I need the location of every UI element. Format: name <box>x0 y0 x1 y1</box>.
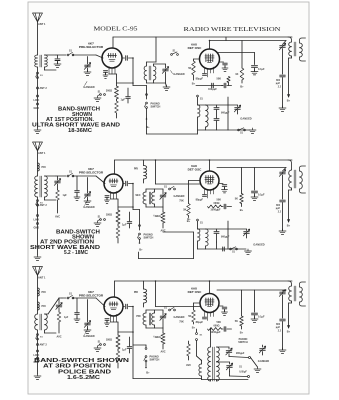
ground varcap s3 <box>84 328 91 333</box>
svg-text:1000μμF: 1000μμF <box>210 331 221 334</box>
ground padder s2 <box>279 229 286 234</box>
oscillator coil core s3 <box>213 347 215 381</box>
wire T2 sec top s1 <box>153 64 155 66</box>
wire V1 plate out s2 <box>123 183 125 185</box>
wire osc bus s2 <box>222 206 224 208</box>
variable capacitor osc1 s3 <box>228 347 230 349</box>
wire osc bottom bus s2 <box>197 241 199 249</box>
ground cath s1 <box>94 96 101 101</box>
resistor below cathode s3 <box>116 351 120 363</box>
wire V1 plate to rail s3 <box>114 281 116 297</box>
ground varcap s2 <box>84 199 91 204</box>
svg-text:1.6-5.2MC: 1.6-5.2MC <box>67 375 100 381</box>
resistor below cathode s1 <box>115 101 119 113</box>
capacitor switch osc s2 <box>223 247 225 251</box>
variable capacitor osc2 s3 <box>229 362 231 364</box>
resistor below cathode s2 <box>116 226 120 238</box>
wire antenna lead s3 <box>37 276 39 315</box>
svg-text:1000μμF: 1000μμF <box>210 209 221 212</box>
wire osc mid s3 <box>217 361 230 363</box>
tube V2 6A8 s1 <box>200 49 220 69</box>
capacitor coupling s1 <box>126 56 128 61</box>
terminal osc2 s3 <box>248 376 250 378</box>
svg-text:PRI: PRI <box>42 305 46 308</box>
variable capacitor padder s3 <box>283 290 287 291</box>
wire below cath res s2 <box>117 224 119 226</box>
wire V1 plate out s3 <box>123 306 125 308</box>
capacitor coupling s3 <box>126 304 128 309</box>
ground osc s2 <box>245 249 252 254</box>
capacitor bypass 77 s3 <box>76 298 78 312</box>
wire SEC top s2 <box>145 189 147 192</box>
resistor 5K s3 <box>194 302 201 304</box>
rail3 s3 <box>217 289 286 291</box>
ground cath s3 <box>94 346 101 351</box>
capacitor grid right s1 <box>220 61 224 63</box>
wire varcap drop s1 <box>87 57 89 65</box>
capacitor 100uuF s1 <box>212 83 214 88</box>
IF transformer core s3 <box>294 286 296 301</box>
wire V2 grid feed s3 <box>155 281 157 307</box>
capacitor bypass 77 s2 <box>76 176 78 190</box>
switch osc contacts s3 <box>196 329 198 332</box>
transformer T1 secondary s3 <box>45 314 48 330</box>
wire cath bus right s2 <box>118 206 133 208</box>
wire T1 sec bottom s3 <box>44 330 46 333</box>
resistor AVC s3 <box>57 312 61 322</box>
svg-text:B+: B+ <box>287 99 291 103</box>
transformer T2b core s2 <box>149 192 150 204</box>
transformer T1 core s2 <box>40 176 42 197</box>
wire ant ground lead s3 <box>37 330 39 374</box>
ground bypass 77 s2 <box>74 195 80 200</box>
svg-text:AVC: AVC <box>160 351 165 354</box>
wire drop 0.1uF s3 <box>254 290 256 312</box>
wire T1 sec top s2 <box>45 175 57 177</box>
svg-text:300Ω: 300Ω <box>106 90 112 93</box>
svg-text:LINK: LINK <box>34 99 40 102</box>
svg-text:B+: B+ <box>139 248 143 252</box>
wire osc coilC leads s3 <box>201 360 203 364</box>
wire osc top s3 <box>217 346 230 348</box>
svg-text:B+: B+ <box>240 85 244 89</box>
svg-text:1μF: 1μF <box>122 224 127 227</box>
svg-text:DET OSC: DET OSC <box>188 168 203 172</box>
resistor cathode s3 <box>117 322 119 335</box>
svg-text:MODEL C-95: MODEL C-95 <box>94 25 138 32</box>
ground 0.1uF s3 <box>251 317 258 322</box>
resistor 600ohm s2 <box>208 205 222 208</box>
capacitor grid right s2 <box>219 183 223 185</box>
wire T2b tops s2 <box>154 189 156 192</box>
wire below 5K s2 <box>188 216 190 218</box>
transformer T2 core s1 <box>149 66 151 80</box>
terminal LINK s1 <box>37 95 39 97</box>
coil PRI s3 <box>144 289 147 303</box>
wire drop 0.1uF s1 <box>254 53 256 65</box>
wire T1 sec bottom s1 <box>44 67 46 70</box>
ground padder s1 <box>279 106 286 111</box>
svg-text:RADIO WIRE TELEVISION: RADIO WIRE TELEVISION <box>184 26 281 33</box>
svg-text:DET OSC: DET OSC <box>188 46 203 50</box>
capacitor 80uuF s1 <box>203 74 207 76</box>
capacitor osc pad s1 <box>216 105 218 107</box>
wire osc drop s3 <box>210 329 212 347</box>
switch S1d s2 <box>230 248 232 250</box>
svg-text:ANT 1: ANT 1 <box>38 22 46 26</box>
oscillator coil A s1 <box>198 105 200 117</box>
ground antenna s3 <box>34 374 41 379</box>
wire cath bus s1 <box>109 73 117 75</box>
svg-text:0.05μF: 0.05μF <box>239 371 247 374</box>
terminal GND s2 <box>37 223 39 225</box>
tube V1 6K7 s2 <box>104 174 123 193</box>
transformer T1 primary s1 <box>35 55 38 67</box>
wire mid gnd s1 <box>166 83 167 87</box>
wire phono down2 s3 <box>145 362 147 367</box>
transformer T2b coil s3 <box>152 313 155 325</box>
wire below 5K right s3 <box>241 326 243 329</box>
capacitor cathode bypass s3 <box>105 319 109 321</box>
transformer T1 core s1 <box>40 55 42 67</box>
switch phono s3 <box>145 348 147 350</box>
terminal osc1 s3 <box>249 357 251 359</box>
junction rail plate s2 <box>209 159 211 161</box>
svg-text:0.1μF: 0.1μF <box>258 68 265 71</box>
oscillator coil A s3 <box>208 347 211 381</box>
wire phono bottom return s1 <box>146 118 148 134</box>
resistor 5K s1 <box>194 58 200 60</box>
svg-text:75K: 75K <box>179 200 184 203</box>
wire osc bus left s1 <box>196 85 223 87</box>
wire drop 0.1uF s2 <box>254 168 256 191</box>
variable capacitor padder s2 <box>283 168 287 172</box>
wire rail drop to PRI s3 <box>143 281 145 289</box>
coil antenna choke1 s2 <box>38 163 40 171</box>
svg-text:B+: B+ <box>287 224 291 228</box>
svg-text:5K: 5K <box>235 320 238 323</box>
svg-text:AVC: AVC <box>56 336 61 339</box>
tube V2 6A8 s3 <box>200 294 219 313</box>
svg-text:GANGED: GANGED <box>253 243 265 247</box>
variable capacitor osc s2 <box>246 229 248 231</box>
capacitor cathode bypass s2 <box>105 196 109 198</box>
IF transformer core s1 <box>294 42 296 56</box>
switch S1a s3 <box>67 297 69 299</box>
IF transformer secondary s3 <box>300 287 303 302</box>
wire varcap drop s2 <box>87 178 89 194</box>
ground padder s3 <box>279 348 286 353</box>
svg-text:18-36MC: 18-36MC <box>68 128 92 134</box>
svg-text:PRI: PRI <box>42 166 46 169</box>
wire V2 plate to rail s3 <box>209 281 211 294</box>
resistor 5K s2 <box>189 180 201 182</box>
wire padder gnd s2 <box>282 203 284 232</box>
capacitor grid right s3 <box>219 305 223 307</box>
svg-text:B+: B+ <box>240 331 244 335</box>
wire SEC top s3 <box>145 310 147 313</box>
terminal ANT2 s3 <box>37 344 39 346</box>
transformer T1 core s3 <box>40 314 42 330</box>
resistor quarter-meg s3 <box>162 328 164 333</box>
wire plate junction drop s2 <box>132 184 134 208</box>
wire cath bus right s1 <box>117 82 134 84</box>
wire antenna lead s1 <box>37 22 39 55</box>
wire below cath res s3 <box>117 349 119 351</box>
resistor AVC s2 <box>56 190 60 200</box>
svg-text:LINK: LINK <box>34 219 40 222</box>
ground osc s1 <box>249 128 256 133</box>
wire V1 plate to rail s1 <box>112 37 114 48</box>
svg-text:GANGED: GANGED <box>173 72 185 76</box>
terminal GND s1 <box>37 103 39 105</box>
wire resistor tail s2 <box>117 238 119 243</box>
variable capacitor ganged s3 <box>85 323 91 325</box>
wire osc tops s2 <box>198 228 206 230</box>
wire varcap to gnd s1 <box>87 68 89 72</box>
transformer T2b core s3 <box>149 313 150 325</box>
svg-text:50K: 50K <box>217 78 222 81</box>
wire AVC return s2 <box>163 231 194 233</box>
wire AVC down s2 <box>57 200 59 213</box>
switch S1c s3 <box>169 309 171 311</box>
ground mid s1 <box>163 85 170 90</box>
wire IF sec bot s3 <box>300 302 306 306</box>
coil antenna choke2 s3 <box>38 302 40 310</box>
wire gnd osc link s3 <box>251 358 258 368</box>
terminal LINK s2 <box>37 215 39 217</box>
wire V2 cathode leads s2 <box>205 188 214 198</box>
switch S1d s1 <box>238 129 240 131</box>
svg-text:GANGED: GANGED <box>83 205 95 209</box>
wire AVC down s3 <box>58 322 60 333</box>
capacitor 0.1uF s2 <box>252 191 258 193</box>
IF transformer primary s3 <box>289 286 292 301</box>
resistor 5K right s2 <box>241 168 243 194</box>
wire osc vc top s2 <box>228 228 247 230</box>
wire grid lead s3 <box>62 297 66 299</box>
transformer T2 primary s1 <box>144 66 146 80</box>
terminal osc S1 s2 <box>197 219 199 221</box>
svg-text:80μμF: 80μμF <box>196 78 204 81</box>
resistor osc grid s1 <box>228 83 230 86</box>
capacitor osc pad s2 <box>216 229 218 231</box>
resistor 1K s1 <box>241 41 243 69</box>
wire plate junction drop s1 <box>132 58 134 83</box>
svg-text:AVC: AVC <box>55 216 60 219</box>
wire below qmeg s3 <box>162 344 164 349</box>
svg-text:B+: B+ <box>287 330 291 334</box>
svg-text:1μF: 1μF <box>122 349 127 352</box>
oscillator coil A s2 <box>198 229 200 241</box>
capacitor 1uF s3 <box>129 337 131 346</box>
svg-text:ANT 2: ANT 2 <box>40 204 48 207</box>
wire T1 sec bottom s2 <box>44 197 46 200</box>
capacitor padder s3 <box>280 319 286 321</box>
svg-text:900μμF: 900μμF <box>236 352 245 355</box>
capacitor 80uuF s3 <box>203 317 207 319</box>
svg-text:PRI: PRI <box>136 315 140 318</box>
switch S1b contacts s2 <box>37 200 39 202</box>
switch S1b s1 <box>100 94 102 96</box>
svg-text:ANT 1: ANT 1 <box>38 151 46 155</box>
wire V2 cathode leads s3 <box>205 311 214 321</box>
wire cath bus s3 <box>111 321 119 323</box>
rail3 s1 <box>218 52 255 54</box>
wire rail drop to T2 s1 <box>155 37 157 62</box>
svg-text:PRE-SELECTOR: PRE-SELECTOR <box>79 171 104 175</box>
wire osc bottom bus s3 <box>202 379 249 381</box>
svg-text:LINK: LINK <box>34 354 40 357</box>
svg-text:1μF: 1μF <box>64 316 69 319</box>
svg-text:180Ω: 180Ω <box>106 214 112 217</box>
capacitor 0.05 s3 <box>229 372 231 377</box>
resistor AVC2 s3 <box>188 341 190 344</box>
ground varcap s1 <box>84 70 91 75</box>
capacitor 80uuF s2 <box>203 195 207 197</box>
wire antenna lead s2 <box>37 151 39 176</box>
svg-text:75K: 75K <box>179 321 184 324</box>
variable capacitor C osc s1 <box>165 64 167 68</box>
svg-text:5K: 5K <box>188 67 191 70</box>
transformer T1 secondary s1 <box>45 55 48 67</box>
svg-text:0.1μF: 0.1μF <box>258 316 265 319</box>
svg-text:B+: B+ <box>192 82 196 86</box>
resistor quarter-meg s2 <box>162 207 164 212</box>
junction dot bus s1 <box>132 82 134 84</box>
wire IF sec top s2 <box>300 166 306 171</box>
wire ant ground lead s1 <box>37 67 39 128</box>
wire osc bottom bus s1 <box>197 117 199 130</box>
variable capacitor ganged s2 <box>85 194 91 196</box>
wire V1 cathode leads s2 <box>111 192 117 200</box>
svg-text:5K: 5K <box>183 209 186 212</box>
svg-text:600Ω: 600Ω <box>214 325 220 328</box>
wire phono down s1 <box>146 108 148 118</box>
variable capacitor padder s1 <box>283 41 287 45</box>
tube V1 6K7 s3 <box>104 297 123 316</box>
capacitor 1000uuF s2 <box>224 204 226 209</box>
wire T2b bottoms s2 <box>154 204 156 207</box>
ground trimmer C1 s1 <box>54 62 61 67</box>
svg-text:900μμF: 900μμF <box>221 236 230 239</box>
wire IF sec bot s2 <box>300 189 306 193</box>
wire V2 grid feed s2 <box>155 160 157 184</box>
wire grid lead s1 <box>56 54 66 56</box>
coil SEC s2 <box>143 192 146 204</box>
oscillator coil B s1 <box>206 105 209 127</box>
wire 0.1uF gnd s2 <box>254 194 256 198</box>
wire IF prim bot s3 <box>291 301 293 303</box>
capacitor 1000uuF s3 <box>224 327 226 332</box>
transformer T2 secondary s1 <box>154 66 156 80</box>
oscillator coil B s3 <box>217 347 220 381</box>
IF transformer secondary s2 <box>300 171 303 189</box>
ground 0.1uF s1 <box>251 70 258 75</box>
ground antenna s1 <box>34 128 41 133</box>
wire below 5K s1 <box>193 75 195 80</box>
wire varcap to gnd s2 <box>87 197 89 201</box>
svg-text:80μμF: 80μμF <box>196 199 204 202</box>
wire resistor tail s3 <box>117 363 119 368</box>
svg-text:100μμF: 100μμF <box>208 88 217 91</box>
svg-text:1K: 1K <box>235 73 238 76</box>
wire 0.1uF gnd s3 <box>254 316 256 320</box>
variable capacitor mid s3 <box>162 310 164 315</box>
wire V2 plate to rail s1 <box>209 41 211 50</box>
wire padder gnd s1 <box>282 78 284 109</box>
ground 0.1uF s2 <box>251 195 258 200</box>
wire osc vc top s1 <box>228 104 238 106</box>
transformer T1 primary s3 <box>35 314 38 330</box>
junction dot bus s2 <box>132 206 134 208</box>
ground antenna s2 <box>34 255 41 260</box>
IF transformer core s2 <box>294 170 296 188</box>
resistor cathode s2 <box>117 199 119 210</box>
svg-text:PRI: PRI <box>42 291 46 294</box>
wire ant ground lead s2 <box>37 197 39 255</box>
capacitor 0.1uF s3 <box>252 313 258 315</box>
junction rail plate s3 <box>209 280 211 282</box>
switch S1b s2 <box>100 219 102 221</box>
svg-text:PRI: PRI <box>134 168 138 171</box>
variable capacitor trimmer s3 <box>58 298 60 304</box>
antenna ANT1 s1 <box>33 13 43 22</box>
transformer T1 secondary s2 <box>45 176 48 197</box>
tube V2 6A8 s2 <box>200 171 219 190</box>
capacitor 1uF s2 <box>129 212 131 221</box>
capacitor coupling s2 <box>126 181 128 186</box>
svg-text:μμF: μμF <box>276 208 281 210</box>
wire phono drop s2 <box>139 210 141 231</box>
wire rail to IF s2 <box>288 160 292 170</box>
wire PRI bottom s2 <box>143 179 145 183</box>
variable capacitor ganged s1 <box>85 65 91 67</box>
wire T1 sec top s1 <box>45 54 57 56</box>
wire osc top bus s2 <box>206 228 229 230</box>
wire T2b tops s3 <box>154 310 156 313</box>
tube V1 6K7 s1 <box>102 48 122 68</box>
svg-text:μμF: μμF <box>276 327 281 329</box>
resistor cathode s1 <box>116 74 118 86</box>
oscillator coil B s2 <box>206 229 209 246</box>
wire PRI bottom s3 <box>143 303 145 307</box>
junction grid feed s3 <box>155 280 157 282</box>
ground bypass 77 s3 <box>74 317 80 322</box>
svg-text:B+: B+ <box>187 217 191 221</box>
junction rail2 plate s1 <box>209 40 211 42</box>
terminal ANT2 s1 <box>37 87 39 89</box>
svg-text:ANT 2: ANT 2 <box>40 344 48 347</box>
wire varcap drop s3 <box>87 300 89 323</box>
svg-text:GANGED: GANGED <box>83 334 95 338</box>
wire below 1K s1 <box>241 80 243 83</box>
variable capacitor osc s1 <box>237 105 239 107</box>
wire T2 prim top s1 <box>146 62 148 66</box>
wire T2b bottoms s3 <box>154 325 156 328</box>
terminal osc S1 s1 <box>197 95 199 97</box>
wire IF prim bot s1 <box>291 56 293 58</box>
capacitor cathode bypass s1 <box>104 71 108 73</box>
coil SEC s3 <box>143 313 146 325</box>
resistor 600ohm s3 <box>208 328 222 331</box>
antenna ANT1 s2 <box>33 142 43 151</box>
wire rail to IF s3 <box>288 281 292 286</box>
wire rail link s1 <box>225 37 227 41</box>
svg-text:600Ω: 600Ω <box>214 202 220 205</box>
wire plate junction drop s3 <box>132 307 134 333</box>
svg-text:B+: B+ <box>146 371 150 375</box>
